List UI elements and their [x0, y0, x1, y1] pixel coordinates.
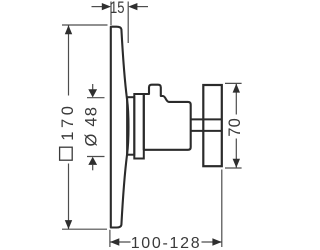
flange ring: [134, 94, 144, 159]
svg-text:15: 15: [110, 0, 125, 17]
dimension 70 (right): [225, 83, 242, 168]
dimension square 170 (left): [62, 25, 108, 229]
valve body with knob: [144, 85, 191, 150]
escutcheon plate (side profile): [111, 27, 129, 228]
dimension 100-128 (bottom): [110, 170, 222, 248]
svg-text:70: 70: [226, 118, 244, 137]
stem line upper: [191, 118, 222, 120]
dimension 15 (top): [92, 2, 149, 44]
sleeve (O48 collar): [127, 97, 134, 155]
svg-text:170: 170: [59, 102, 77, 140]
svg-text:Ø 48: Ø 48: [82, 106, 100, 147]
handle bar (front cylinder): [203, 85, 222, 166]
stem line lower: [191, 130, 222, 132]
dimension diameter 48 (left inner): [87, 84, 105, 170]
square symbol of 170 label: [60, 147, 73, 160]
svg-text:100-128: 100-128: [131, 235, 202, 250]
